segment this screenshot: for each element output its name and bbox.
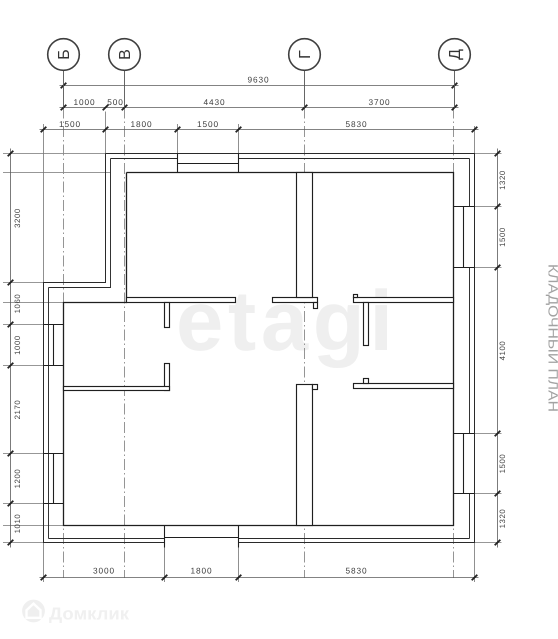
- svg-text:3700: 3700: [368, 97, 390, 107]
- window left wall lower: [44, 454, 64, 504]
- svg-text:1800: 1800: [190, 566, 212, 576]
- window right wall upper: [454, 207, 475, 268]
- svg-text:1320: 1320: [498, 509, 507, 529]
- exterior wall outer contour: [44, 154, 475, 543]
- svg-text:Б: Б: [56, 49, 73, 60]
- axis circle Г: [289, 39, 321, 108]
- svg-text:500: 500: [107, 97, 124, 107]
- dimension line left column: [10, 149, 12, 548]
- dimension line row 1000/500/4430/3700: [60, 107, 459, 109]
- svg-text:3000: 3000: [93, 566, 115, 576]
- exterior door bottom wall: [165, 526, 239, 548]
- interior bearing wall axis Г upper: [297, 173, 313, 298]
- dimension labels left column (rotated): [13, 170, 507, 533]
- svg-text:5830: 5830: [345, 119, 367, 129]
- svg-text:В: В: [117, 49, 134, 60]
- svg-text:etagi: etagi: [176, 274, 393, 369]
- watermark Domclick logo: [22, 600, 129, 624]
- svg-text:1200: 1200: [13, 469, 22, 489]
- svg-text:5830: 5830: [345, 566, 367, 576]
- svg-text:Домклик: Домклик: [49, 604, 129, 624]
- svg-text:1320: 1320: [498, 170, 507, 190]
- interior partition B1 (stub): [165, 303, 170, 328]
- interior wall A2 with door rebate tab: [273, 298, 318, 303]
- extension lines right side: [454, 154, 502, 543]
- axis line Г: [304, 108, 306, 579]
- window right wall lower: [454, 434, 475, 494]
- svg-text:1800: 1800: [130, 119, 152, 129]
- interior wall C1: [64, 387, 170, 391]
- svg-text:2170: 2170: [13, 400, 22, 420]
- svg-text:4430: 4430: [203, 97, 225, 107]
- interior partition B2: [165, 364, 170, 391]
- interior wall E (right rooms divider north): [354, 298, 454, 303]
- svg-text:9630: 9630: [247, 75, 269, 85]
- axis circle Д: [439, 39, 471, 108]
- axis line Б: [63, 108, 65, 579]
- axis circle В: [109, 39, 141, 108]
- window top wall: [178, 154, 239, 173]
- svg-text:1500: 1500: [498, 454, 507, 474]
- exterior wall masonry face: [49, 159, 470, 539]
- svg-text:1060: 1060: [13, 294, 22, 314]
- dimension ticks: [8, 83, 501, 581]
- dimension line row 9630: [11, 86, 498, 578]
- extension lines bottom: [44, 543, 475, 583]
- svg-text:Д: Д: [447, 49, 464, 60]
- window left wall upper: [44, 325, 64, 366]
- exterior wall inner face: [64, 173, 454, 526]
- interior wall A1 (hall north): [127, 298, 236, 303]
- interior partition F: [364, 303, 369, 346]
- interior wall C2 with rebate tab: [354, 384, 454, 389]
- svg-text:3200: 3200: [13, 208, 22, 228]
- svg-text:Г: Г: [297, 50, 314, 59]
- interior bearing wall axis Г lower with rebate tab: [297, 385, 313, 526]
- svg-text:КЛАДОЧНЫЙ ПЛАН: КЛАДОЧНЫЙ ПЛАН: [546, 264, 558, 412]
- svg-text:1000: 1000: [13, 335, 22, 355]
- dimension line row 1500/1800/1500/5830: [40, 129, 479, 131]
- svg-text:4100: 4100: [498, 341, 507, 361]
- svg-text:1500: 1500: [197, 119, 219, 129]
- svg-text:1500: 1500: [498, 227, 507, 247]
- axis line В: [124, 108, 126, 579]
- axis line Д: [453, 108, 455, 579]
- extension lines left side: [3, 154, 111, 543]
- svg-text:1010: 1010: [13, 514, 22, 534]
- dimension line right column: [497, 149, 499, 548]
- dimension line bottom row 3000/1800/5830: [40, 577, 479, 579]
- dimension labels horizontal: [59, 75, 391, 576]
- svg-text:1000: 1000: [73, 97, 95, 107]
- svg-text:1500: 1500: [59, 119, 81, 129]
- extension lines top: [44, 112, 475, 283]
- axis circle Б: [48, 39, 80, 108]
